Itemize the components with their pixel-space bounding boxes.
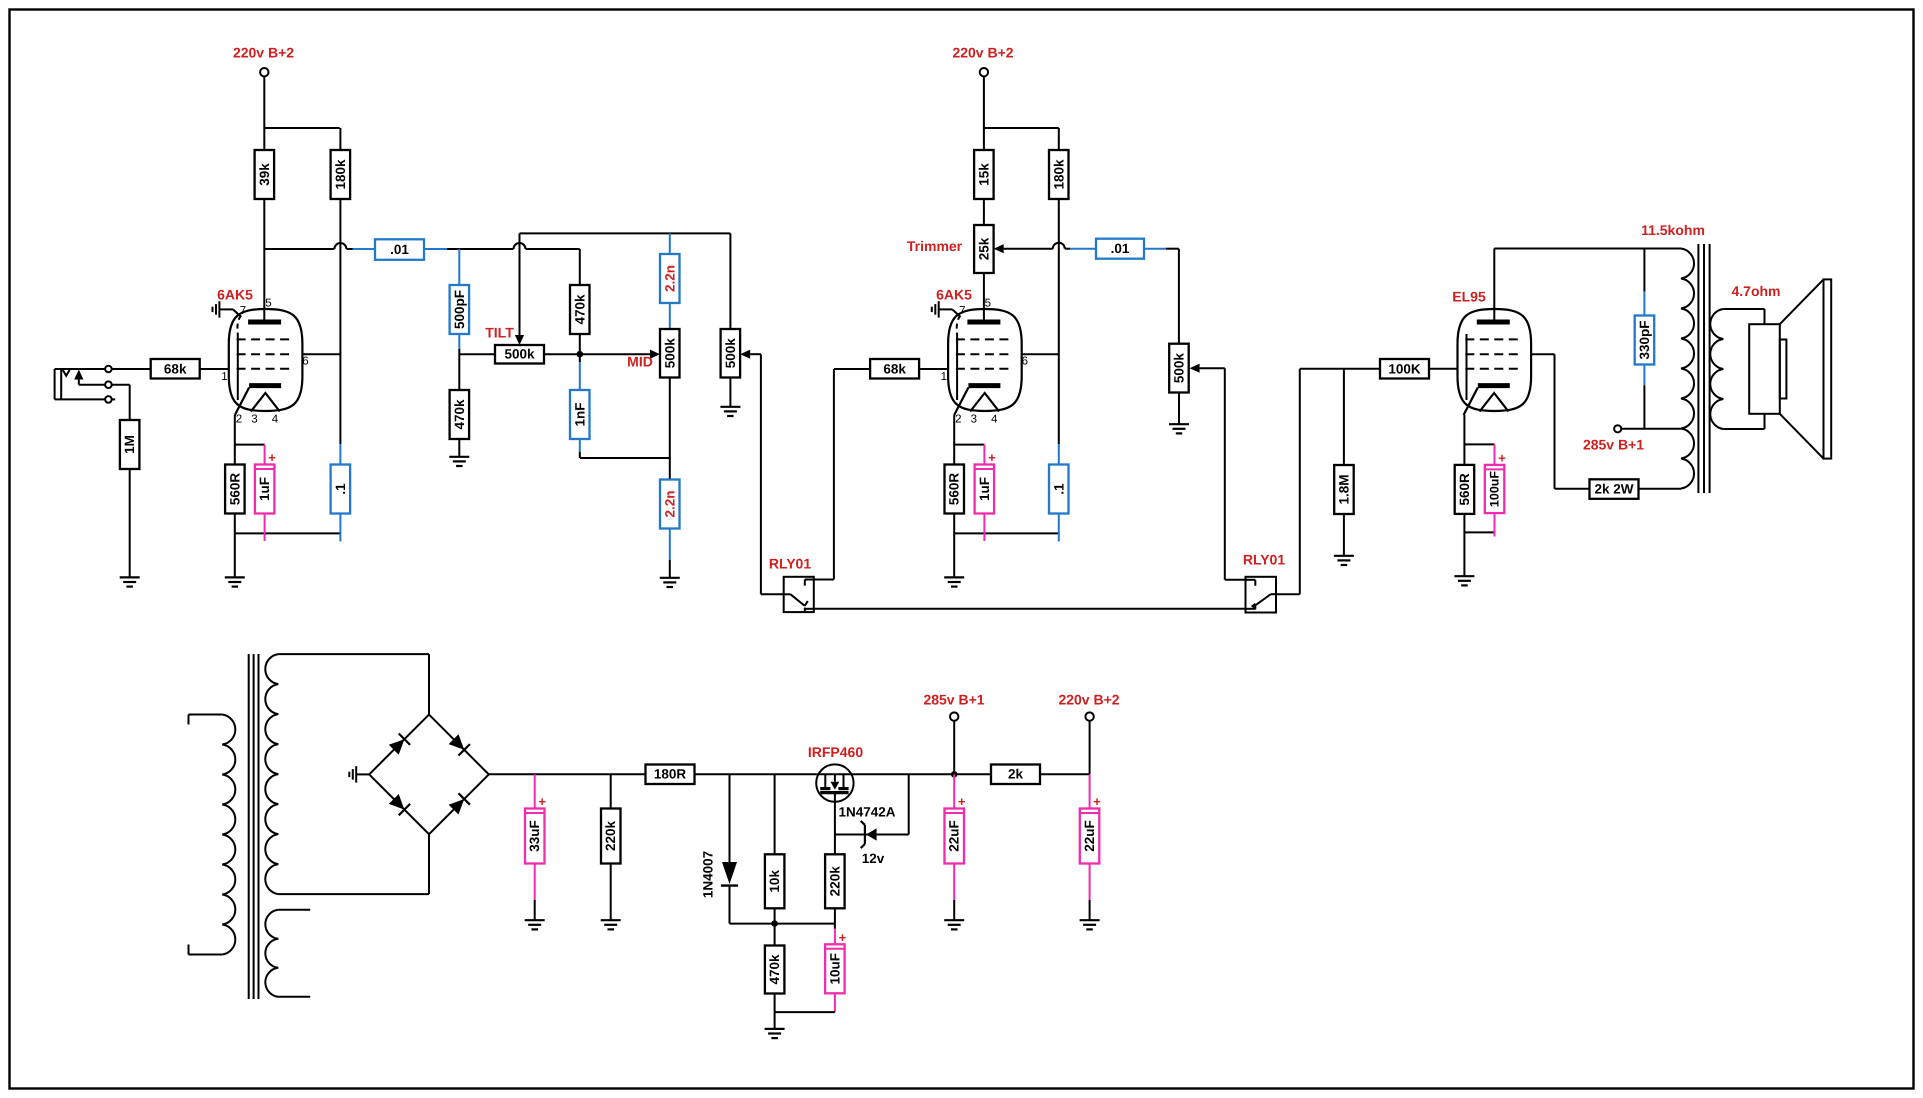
svg-text:220v B+2: 220v B+2 xyxy=(233,45,294,61)
svg-text:11.5kohm: 11.5kohm xyxy=(1641,222,1705,238)
capacitor 1uF (stage 1) xyxy=(255,450,276,514)
svg-text:220k: 220k xyxy=(827,866,842,897)
svg-text:+: + xyxy=(1093,794,1101,809)
svg-text:500k: 500k xyxy=(1172,353,1187,384)
wire 180k bottom / pin6 column to .1 cap xyxy=(339,200,341,445)
resistor 560R (stage 2) xyxy=(945,465,965,514)
wire terminal to 39k xyxy=(263,76,265,150)
svg-text:15k: 15k xyxy=(976,163,991,186)
ground (22uF B+2) xyxy=(1080,920,1100,929)
terminal 220v B+2 (stage 2) xyxy=(980,68,988,76)
resistor 2k xyxy=(991,765,1040,785)
resistor 15k xyxy=(974,150,994,199)
svg-text:.01: .01 xyxy=(1111,241,1130,256)
bridge rectifier diamond xyxy=(428,654,430,715)
svg-text:500k: 500k xyxy=(662,338,677,369)
wire 39k to plate of V1 xyxy=(263,200,265,323)
wire MOSFET source to rail right xyxy=(854,773,991,775)
wire trimmer bottom to plate of V2 xyxy=(983,273,985,322)
svg-text:100K: 100K xyxy=(1388,361,1421,376)
resistor 180k (stage 1) xyxy=(331,150,351,199)
svg-text:1.8M: 1.8M xyxy=(1336,474,1351,504)
wire 180R to MOSFET xyxy=(694,773,816,775)
svg-text:330pF: 330pF xyxy=(1637,320,1652,359)
svg-text:2k 2W: 2k 2W xyxy=(1594,482,1633,497)
svg-text:180k: 180k xyxy=(333,159,348,190)
power transformer heater winding xyxy=(265,910,278,997)
svg-text:4.7ohm: 4.7ohm xyxy=(1731,283,1780,299)
resistor 68k (stage 1 grid) xyxy=(151,359,200,379)
svg-text:2: 2 xyxy=(236,414,242,426)
svg-text:33uF: 33uF xyxy=(527,820,542,852)
wire terminal to 15k xyxy=(983,76,985,150)
svg-text:.1: .1 xyxy=(1051,483,1066,495)
bridge diode D2 (top-right) xyxy=(449,734,465,750)
svg-text:7: 7 xyxy=(240,305,246,317)
wire relay2 common to output grid xyxy=(1276,593,1300,595)
capacitor 1uF lead xyxy=(264,445,266,465)
capacitor 22uF (B+1) xyxy=(953,774,955,808)
ground (volume pot 2) xyxy=(1169,424,1189,433)
wire volume pot top feed xyxy=(729,233,731,329)
wire 470k to ground xyxy=(458,439,460,457)
resistor 100K xyxy=(1380,359,1429,379)
EL95 plate wire up xyxy=(1493,249,1495,323)
ground (volume pot 1) xyxy=(720,407,740,416)
svg-text:470k: 470k xyxy=(572,294,587,325)
output transformer primary winding xyxy=(1681,249,1694,429)
resistor 2k 2W xyxy=(1590,479,1639,499)
wire MID pot bottom run xyxy=(669,378,671,480)
svg-text:1N4742A: 1N4742A xyxy=(838,805,895,820)
resistor 560R (EL95) xyxy=(1455,465,1475,514)
power transformer primary winding xyxy=(222,715,235,955)
wire secondary to speaker xyxy=(1723,308,1764,310)
svg-text:6: 6 xyxy=(1022,356,1028,368)
svg-text:EL95: EL95 xyxy=(1452,289,1486,305)
power transformer HV secondary winding xyxy=(265,654,278,894)
bridge diode D3 (left-bottom) xyxy=(389,794,405,810)
svg-text:2.2n: 2.2n xyxy=(662,265,677,292)
bridge diode D1 (left-top) xyxy=(389,739,405,755)
svg-text:RLY01: RLY01 xyxy=(1243,552,1286,568)
ground (220k) xyxy=(601,920,621,929)
svg-text:220v B+2: 220v B+2 xyxy=(952,45,1013,61)
wire volume 2 bottom to ground xyxy=(1178,393,1180,425)
output transformer secondary winding xyxy=(1710,309,1723,429)
svg-text:1: 1 xyxy=(941,371,947,383)
wire tap to transformer xyxy=(1621,428,1681,430)
svg-text:+: + xyxy=(839,930,847,945)
wire trimmer wiper to .01 with hop xyxy=(1004,248,1053,250)
svg-text:6AK5: 6AK5 xyxy=(217,287,253,303)
svg-text:560R: 560R xyxy=(1457,473,1472,506)
wire .01 to volume pot 2 xyxy=(1144,248,1166,250)
wire 470k upper to mid node xyxy=(579,334,581,354)
capacitor 1uF (stage 2) xyxy=(975,450,997,514)
V2 pin 6 wire xyxy=(1022,353,1059,355)
output transformer core xyxy=(1697,244,1699,493)
resistor 220k (divider) xyxy=(834,908,836,923)
svg-text:.1: .1 xyxy=(333,483,348,495)
svg-text:68k: 68k xyxy=(883,361,906,376)
ground (560R stage 1) xyxy=(225,577,245,586)
wire .1 bottom (stage 2) xyxy=(1058,514,1060,542)
wire 180k(2) bottom column to .1 xyxy=(1058,200,1060,445)
svg-text:220v B+2: 220v B+2 xyxy=(1058,692,1119,708)
resistor 39k xyxy=(255,150,275,199)
wire 2k 2W to transformer bottom xyxy=(1638,488,1681,490)
wire main B+ rail xyxy=(489,773,646,775)
potentiometer volume 500k (stage 1) xyxy=(721,329,741,378)
wire 500pF to tilt node xyxy=(458,334,460,349)
wire source riser to zener xyxy=(908,774,910,834)
resistor 470k (divider) xyxy=(774,924,776,946)
wire 2.2n lower to ground xyxy=(669,528,671,560)
wire 68k left to relay riser xyxy=(834,368,870,370)
wire branch to 180k xyxy=(264,127,339,129)
svg-text:4: 4 xyxy=(991,414,998,426)
jack contact circles xyxy=(105,366,112,373)
capacitor 2.2n (upper) xyxy=(669,233,671,254)
svg-text:+: + xyxy=(268,450,276,465)
svg-text:4: 4 xyxy=(272,414,279,426)
wire cathode bottom run (stage 2) xyxy=(953,514,955,534)
svg-text:180R: 180R xyxy=(654,767,687,782)
ground (1M) xyxy=(120,577,140,586)
wire 2k to B+2 node xyxy=(1039,773,1089,775)
ground (33uF) xyxy=(525,920,545,929)
wire 68k to grid pin 1 xyxy=(200,368,229,370)
resistor 1.8M xyxy=(1343,369,1345,465)
svg-text:5: 5 xyxy=(265,298,271,310)
svg-text:68k: 68k xyxy=(164,361,187,376)
terminal 220v B+2 (PSU) xyxy=(1085,712,1093,720)
svg-text:+: + xyxy=(958,794,966,809)
svg-text:6AK5: 6AK5 xyxy=(936,287,972,303)
wire jack ring to 1M xyxy=(112,384,130,386)
resistor 180k (stage 2) xyxy=(1049,150,1069,199)
wire V2 cathode down xyxy=(953,415,955,465)
potentiometer TILT 500k xyxy=(495,345,544,364)
ground (bridge left) xyxy=(356,773,369,775)
capacitor .1 (stage 2) xyxy=(1049,465,1069,514)
svg-text:1: 1 xyxy=(221,371,227,383)
wire down to 470k upper xyxy=(579,249,581,285)
resistor 470k (tone, lower left) xyxy=(450,390,470,439)
resistor 470k (tone, upper) xyxy=(570,285,590,334)
wire tone top run xyxy=(520,232,731,234)
potentiometer volume 500k (stage 2) xyxy=(1169,344,1189,393)
trimmer potentiometer 25k xyxy=(974,225,994,273)
svg-text:Trimmer: Trimmer xyxy=(907,238,963,254)
speaker xyxy=(1749,279,1831,458)
svg-text:IRFP460: IRFP460 xyxy=(808,744,863,760)
EL95 screen wire to 2k 2W xyxy=(1531,353,1554,355)
wire 2.2n to MID pot xyxy=(669,303,671,329)
capacitor 1nF xyxy=(579,354,581,362)
capacitor 500pF xyxy=(458,249,460,285)
diode 1N4007 xyxy=(729,774,731,862)
input jack xyxy=(55,369,106,399)
svg-text:5: 5 xyxy=(985,298,991,310)
V1 pin 7 ground xyxy=(213,301,220,317)
svg-text:560R: 560R xyxy=(947,473,962,506)
ground (EL95 cathode) xyxy=(1454,576,1474,585)
svg-text:1N4007: 1N4007 xyxy=(701,851,716,898)
svg-text:+: + xyxy=(1498,450,1506,465)
EL95 cathode down xyxy=(1463,415,1465,465)
bridge diode D4 (bottom-right) xyxy=(449,799,465,815)
TILT wiper wire and arrow xyxy=(519,233,521,336)
capacitor 10uF xyxy=(834,924,836,929)
svg-text:10uF: 10uF xyxy=(827,953,842,985)
resistor 220k (PSU bleeder) xyxy=(610,774,612,808)
svg-text:22uF: 22uF xyxy=(1082,820,1097,852)
wire branch to 180k (stage 2) xyxy=(984,127,1059,129)
node mid junction dot xyxy=(544,353,580,355)
svg-text:7: 7 xyxy=(959,305,965,317)
capacitor .01 (stage 2) xyxy=(1096,239,1144,259)
wire cathode branch to 1uF xyxy=(235,444,265,446)
svg-text:+: + xyxy=(988,450,996,465)
heater winding leads xyxy=(278,909,310,911)
ground (470k divider) xyxy=(765,1029,785,1038)
power transformer HV secondary leads xyxy=(278,653,429,655)
capacitor .01 (stage 1 coupling) xyxy=(375,239,424,259)
capacitor 330pF xyxy=(1643,249,1645,292)
resistor 10k xyxy=(774,774,776,854)
V1 pin 6 wire (screen) xyxy=(302,353,340,355)
capacitor 2.2n (lower) xyxy=(660,480,680,529)
node tilt-left junction xyxy=(459,353,495,355)
svg-text:39k: 39k xyxy=(257,163,272,186)
capacitor 22uF (B+2) xyxy=(1089,774,1091,808)
svg-text:12v: 12v xyxy=(862,851,885,866)
zener wire xyxy=(835,834,909,836)
ground (560R stage 2) xyxy=(944,577,964,586)
ground (1.8M) xyxy=(1334,556,1354,565)
wire relay1 to relay2 (bottom run) xyxy=(814,608,1246,610)
wire volume pot bottom to ground xyxy=(729,378,731,407)
svg-text:470k: 470k xyxy=(452,399,467,430)
node B+1 junction dot xyxy=(951,771,958,778)
svg-text:100uF: 100uF xyxy=(1488,471,1502,507)
svg-text:RLY01: RLY01 xyxy=(769,556,812,572)
svg-text:500k: 500k xyxy=(504,347,535,362)
wire plate to output transformer xyxy=(1494,248,1681,250)
wire 68k to V2 grid xyxy=(920,368,948,370)
V2 pin 7 ground xyxy=(932,301,939,317)
svg-text:MID: MID xyxy=(627,354,653,370)
wire 1M to ground xyxy=(129,469,131,577)
wire cathode bottom run xyxy=(234,514,236,534)
wire 100K to EL95 grid xyxy=(1430,368,1458,370)
power transformer primary leads xyxy=(189,714,223,716)
svg-text:500pF: 500pF xyxy=(452,290,467,329)
svg-text:180k: 180k xyxy=(1051,159,1066,190)
ground (tone 470k) xyxy=(449,457,469,466)
wire .01 to tone stack xyxy=(424,248,447,250)
wire gate down xyxy=(834,802,836,855)
resistor 1M xyxy=(120,420,139,469)
svg-text:285v B+1: 285v B+1 xyxy=(923,692,984,708)
node divider junction xyxy=(730,923,835,925)
wire 1.8M to ground xyxy=(1343,514,1345,556)
wire mid node to MID pot wiper arrow xyxy=(580,353,651,355)
terminal 220v B+2 (stage 1) xyxy=(260,68,268,76)
wire .1 bottom xyxy=(339,514,341,542)
terminal 285v B+1 (output) xyxy=(1614,425,1621,432)
zener diode 1N4742A xyxy=(866,828,877,840)
svg-text:TILT: TILT xyxy=(485,325,514,341)
resistor 180R xyxy=(646,765,695,785)
svg-text:500k: 500k xyxy=(723,338,738,369)
wire cathode branch to 1uF (stage 2) xyxy=(954,444,984,446)
svg-text:470k: 470k xyxy=(767,954,782,985)
wire plate node to coupling cap .01 with hop over 180k column xyxy=(264,248,334,250)
ground (2.2n lower) xyxy=(660,578,680,587)
svg-text:1nF: 1nF xyxy=(572,402,587,426)
resistor 560R (stage 1) xyxy=(225,465,245,514)
svg-text:2k: 2k xyxy=(1008,767,1024,782)
svg-text:3: 3 xyxy=(251,414,257,426)
svg-text:2.2n: 2.2n xyxy=(662,490,677,517)
power transformer core xyxy=(248,654,250,999)
capacitor 100uF xyxy=(1485,450,1506,513)
wire volume wiper to relay xyxy=(750,353,761,355)
wire jack tip to 68k xyxy=(112,368,151,370)
capacitor 33uF xyxy=(534,774,536,808)
svg-text:560R: 560R xyxy=(227,473,242,506)
wire 1nF bottom to 2.2n column xyxy=(579,439,581,452)
wire V1 cathode pin 2 down xyxy=(234,415,236,465)
svg-text:1uF: 1uF xyxy=(257,477,272,501)
ground (22uF B+1) xyxy=(944,920,964,929)
resistor 68k (stage 2 grid) xyxy=(870,359,919,379)
wire 560R to ground xyxy=(234,533,236,577)
svg-text:285v B+1: 285v B+1 xyxy=(1583,437,1644,453)
svg-text:25k: 25k xyxy=(976,237,991,260)
svg-text:2: 2 xyxy=(955,414,961,426)
potentiometer MID 500k xyxy=(660,329,680,378)
wire jack sleeve stub xyxy=(112,398,116,400)
wire EL95 cathode bottom run xyxy=(1463,513,1465,532)
svg-text:1uF: 1uF xyxy=(977,477,992,501)
svg-text:+: + xyxy=(538,794,546,809)
svg-text:6: 6 xyxy=(302,356,308,368)
terminal 285v B+1 (PSU) xyxy=(950,712,958,720)
svg-text:1M: 1M xyxy=(122,435,137,454)
wire cathode branch to 100uF xyxy=(1464,443,1494,445)
wire 15k to trimmer xyxy=(983,200,985,226)
svg-text:10k: 10k xyxy=(767,870,782,893)
svg-text:.01: .01 xyxy=(390,242,409,257)
wire divider bottom xyxy=(774,994,776,1013)
svg-text:220k: 220k xyxy=(603,820,618,851)
svg-text:3: 3 xyxy=(971,414,977,426)
wire volume 2 wiper to relay 2 xyxy=(1200,367,1225,369)
capacitor .1 (stage 1) xyxy=(331,465,351,514)
svg-text:22uF: 22uF xyxy=(947,820,962,852)
